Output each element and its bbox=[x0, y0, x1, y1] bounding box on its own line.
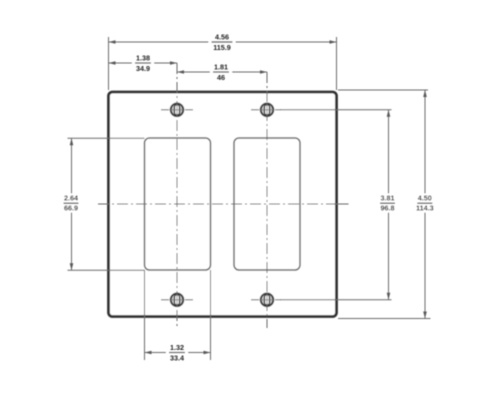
svg-text:4.50: 4.50 bbox=[418, 194, 432, 203]
dimension text 1.81 / 46 bbox=[210, 71, 232, 73]
svg-text:1.38: 1.38 bbox=[136, 53, 150, 62]
dimension text 1.38 / 34.9 bbox=[132, 62, 154, 64]
extension line opening top (left dim) bbox=[68, 137, 145, 139]
vertical centerline right column bbox=[266, 72, 268, 328]
svg-text:114.3: 114.3 bbox=[416, 203, 434, 212]
horizontal centerline bbox=[98, 203, 341, 205]
screw bottom-right bbox=[251, 293, 281, 306]
extension line top-right corner bbox=[336, 37, 338, 90]
vertical centerline left column bbox=[176, 63, 178, 328]
extension line opening bottom-left edge bbox=[144, 270, 146, 360]
extension line plate top (far right dim) bbox=[338, 89, 428, 91]
right opening bbox=[234, 138, 300, 270]
dimension text 3.81 / 96.8 bbox=[378, 194, 399, 213]
svg-text:4.56: 4.56 bbox=[215, 32, 229, 41]
svg-text:115.9: 115.9 bbox=[213, 43, 231, 52]
extension line bottom screw row (right) bbox=[280, 299, 392, 301]
screw bottom-left bbox=[161, 293, 193, 306]
dimension line 4.56 bbox=[109, 40, 337, 44]
left opening bbox=[145, 138, 211, 270]
dimension text 1.32 / 33.4 bbox=[166, 351, 188, 353]
dimension text 4.56 / 115.9 bbox=[209, 41, 236, 43]
svg-text:96.8: 96.8 bbox=[381, 203, 395, 212]
svg-text:1.32: 1.32 bbox=[170, 343, 184, 352]
dimension line 4.50 bbox=[423, 90, 427, 319]
dimension line 1.32 bbox=[145, 351, 211, 355]
svg-text:1.81: 1.81 bbox=[214, 62, 228, 71]
svg-text:33.4: 33.4 bbox=[170, 353, 184, 362]
dimension line 3.81 bbox=[387, 110, 391, 300]
svg-text:34.9: 34.9 bbox=[136, 64, 150, 73]
dimension line 2.64 bbox=[70, 138, 74, 270]
dimension line 1.38 bbox=[109, 61, 178, 65]
dimension text 2.64 / 66.9 bbox=[62, 194, 81, 213]
wall plate outline bbox=[109, 92, 337, 317]
svg-text:3.81: 3.81 bbox=[381, 194, 395, 203]
dimension text 4.50 / 114.3 bbox=[414, 194, 437, 213]
svg-text:46: 46 bbox=[217, 73, 225, 82]
screw top-right bbox=[251, 103, 281, 116]
extension line top-left corner bbox=[108, 37, 110, 90]
svg-text:66.9: 66.9 bbox=[64, 203, 78, 212]
extension line plate bottom (far right dim) bbox=[338, 318, 431, 320]
svg-text:2.64: 2.64 bbox=[64, 194, 78, 203]
extension line top screw row (right) bbox=[280, 109, 392, 111]
screw top-left bbox=[161, 103, 193, 116]
dimension line 1.81 bbox=[177, 70, 267, 74]
extension line opening bottom (left dim) bbox=[68, 269, 145, 271]
extension line opening bottom-right edge bbox=[210, 270, 212, 360]
